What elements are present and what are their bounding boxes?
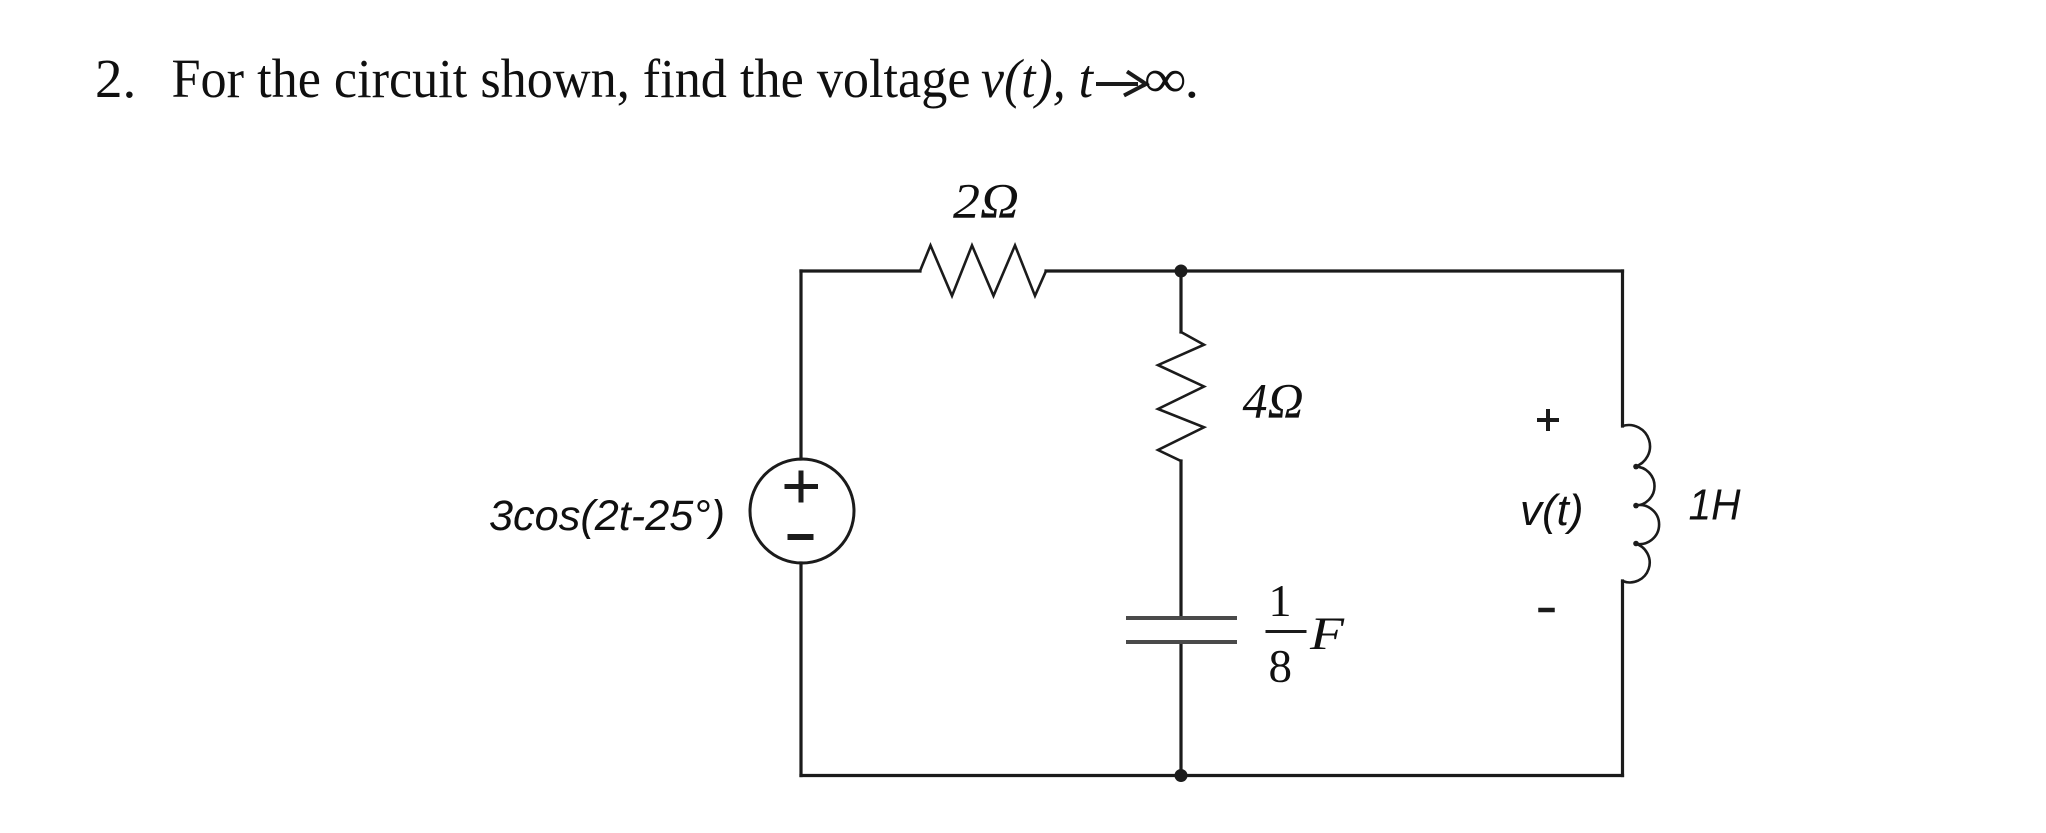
svg-text:v(t): v(t) — [1520, 486, 1584, 535]
svg-text:3cos(2t-25°): 3cos(2t-25°) — [489, 492, 725, 540]
svg-text:F: F — [1309, 608, 1346, 660]
svg-text:1H: 1H — [1689, 481, 1741, 530]
svg-text:4Ω: 4Ω — [1243, 373, 1304, 429]
svg-text:2Ω: 2Ω — [953, 173, 1019, 229]
svg-text:∞.: ∞. — [1145, 48, 1201, 109]
svg-text:8: 8 — [1269, 641, 1293, 693]
svg-text:For the circuit shown, find th: For the circuit shown, find the voltage — [172, 48, 971, 109]
svg-text:2.: 2. — [95, 48, 136, 109]
svg-text:v(t), t: v(t), t — [981, 48, 1095, 109]
svg-text:1: 1 — [1269, 575, 1292, 626]
